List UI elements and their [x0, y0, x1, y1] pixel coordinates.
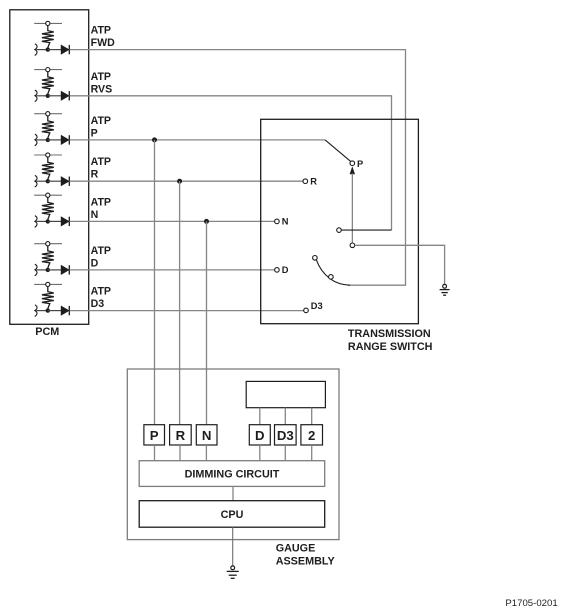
wire: lamp P to dimming circuit [154, 445, 156, 461]
wire: driver box to D lamp [259, 408, 261, 425]
svg-text:P1705-0201: P1705-0201 [505, 598, 557, 609]
DIMMING CIRCUIT box [139, 461, 325, 487]
wire: internal supply rail (ATP N) [34, 194, 62, 196]
resistor R5 (pull-up, ATP N) [42, 197, 54, 219]
svg-text:ASSEMBLY: ASSEMBLY [276, 556, 336, 568]
PCM box [10, 10, 89, 325]
indicator lamp box N [196, 425, 217, 445]
wire: node N down to gauge N lamp [206, 221, 208, 424]
contact circle P [350, 161, 355, 166]
wire: junction to diode (ATP D3) [48, 310, 62, 312]
svg-text:D3: D3 [91, 298, 105, 310]
wire: ATP N row [70, 220, 275, 222]
indicator lamp box 2 [301, 425, 323, 445]
ground symbol (gauge assembly) [227, 566, 239, 578]
ground symbol (switch) [440, 284, 450, 295]
svg-text:D: D [282, 265, 289, 275]
off-page connector squiggle (ATP R) [35, 175, 37, 187]
wire: node R down to gauge R lamp [179, 181, 181, 425]
svg-text:D3: D3 [277, 428, 294, 443]
wire: driver box to 2 lamp [311, 408, 313, 425]
resistor R7 (pull-up, ATP D3) [42, 286, 54, 308]
svg-text:FWD: FWD [91, 37, 115, 49]
wire: lamp N to dimming circuit [205, 445, 207, 461]
diode CR1 (ATP FWD) [61, 45, 69, 54]
off-page connector squiggle (ATP RVS) [35, 90, 37, 102]
wire: ATP D row [70, 269, 275, 271]
PCM driver cell for ATP D [34, 242, 111, 276]
svg-text:ATP: ATP [91, 196, 111, 208]
junction dot (resistor/diode node, ATP D) [46, 268, 50, 272]
diode CR2 (ATP RVS) [61, 91, 69, 100]
wire: CPU to ground [232, 527, 234, 566]
terminal circle (supply tap, ATP N) [46, 193, 50, 197]
diode CR6 (ATP D) [61, 266, 69, 275]
junction dot node P [152, 137, 157, 142]
contact circle D [275, 268, 280, 273]
terminal circle (supply tap, ATP RVS) [46, 68, 50, 72]
svg-text:N: N [91, 209, 99, 221]
arc wiper contact (D/D3 strip) [316, 260, 350, 286]
PCM driver cell for ATP D3 [34, 282, 111, 316]
wire: squiggle to junction (ATP D) [36, 269, 48, 271]
wire: P feed diagonal into switch [325, 140, 351, 162]
svg-text:N: N [202, 428, 212, 443]
wire: internal supply rail (ATP R) [34, 154, 62, 156]
wiper arm arrow (range selector) [350, 166, 355, 174]
wire: ATP P row [70, 139, 326, 141]
terminal circle (supply tap, ATP FWD) [46, 21, 50, 25]
indicator driver box (unlabeled) [246, 381, 325, 407]
PCM driver cell for ATP N [34, 193, 111, 227]
svg-text:P: P [150, 428, 159, 443]
wire: internal supply rail (ATP P) [34, 113, 62, 115]
diode CR7 (ATP D3) [61, 306, 69, 315]
wire: lamp 2 to dimming circuit [311, 445, 313, 461]
wire: junction to diode (ATP RVS) [48, 95, 62, 97]
svg-text:P: P [357, 159, 363, 169]
CPU box [139, 501, 325, 528]
svg-text:R: R [91, 169, 99, 181]
wire: junction to diode (ATP D) [48, 269, 62, 271]
svg-text:ATP: ATP [91, 156, 111, 168]
wire: dimming circuit to CPU [232, 486, 234, 500]
terminal circle (supply tap, ATP P) [46, 112, 50, 116]
wire: ATP FWD row [70, 50, 406, 286]
terminal circle (supply tap, ATP D3) [46, 282, 50, 286]
wire: driver box to D3 lamp [284, 408, 286, 425]
indicator lamp box D3 [275, 425, 297, 445]
wire: lamp D3 to dimming circuit [284, 445, 286, 461]
wire: squiggle to junction (ATP D3) [36, 310, 48, 312]
svg-text:2: 2 [308, 428, 315, 443]
indicator lamp box P [144, 425, 165, 445]
contact circle R [303, 179, 308, 184]
wire: internal supply rail (ATP FWD) [34, 22, 62, 24]
resistor R4 (pull-up, ATP R) [42, 157, 54, 179]
wire: internal supply rail (ATP D) [34, 243, 62, 245]
contact circle arc wiper lower [329, 275, 334, 280]
svg-text:D3: D3 [311, 301, 323, 311]
wire: wiper pivot to ground [355, 245, 445, 284]
svg-text:ATP: ATP [91, 71, 111, 83]
wire: lamp R to dimming circuit [179, 445, 181, 461]
junction dot (resistor/diode node, ATP N) [46, 219, 50, 223]
wire: ATP RVS row [70, 96, 392, 230]
svg-text:ATP: ATP [91, 245, 111, 257]
svg-text:RVS: RVS [91, 83, 113, 95]
junction dot (resistor/diode node, ATP P) [46, 138, 50, 142]
wire: ATP R row [70, 180, 303, 182]
off-page connector squiggle (ATP D) [35, 264, 37, 276]
wire: node P down to gauge P lamp [154, 140, 156, 425]
svg-text:R: R [310, 177, 317, 187]
wire: internal supply rail (ATP RVS) [34, 69, 62, 71]
wire: junction to diode (ATP FWD) [48, 49, 62, 51]
svg-text:ATP: ATP [91, 286, 111, 298]
junction dot (resistor/diode node, ATP RVS) [46, 94, 50, 98]
svg-text:ATP: ATP [91, 115, 111, 127]
resistor R1 (pull-up, ATP FWD) [42, 25, 54, 47]
junction dot (resistor/diode node, ATP R) [46, 179, 50, 183]
wire: lamp D to dimming circuit [259, 445, 261, 461]
contact circle D3 [304, 308, 309, 313]
wire: squiggle to junction (ATP R) [36, 180, 48, 182]
svg-text:CPU: CPU [221, 509, 244, 521]
PCM driver cell for ATP R [34, 153, 111, 187]
wire: squiggle to junction (ATP FWD) [36, 49, 48, 51]
svg-text:N: N [282, 217, 289, 227]
diode CR4 (ATP R) [61, 177, 69, 186]
svg-text:ATP: ATP [91, 25, 111, 37]
terminal circle (supply tap, ATP D) [46, 242, 50, 246]
wiper pivot circle [350, 243, 355, 248]
svg-text:P: P [91, 127, 98, 139]
wire: squiggle to junction (ATP RVS) [36, 95, 48, 97]
off-page connector squiggle (ATP D3) [35, 305, 37, 317]
off-page connector squiggle (ATP N) [35, 216, 37, 228]
wire: junction to diode (ATP R) [48, 180, 62, 182]
contact circle RVS feed [337, 228, 342, 233]
svg-text:D: D [91, 257, 99, 269]
PCM driver cell for ATP RVS [34, 68, 112, 102]
diode CR5 (ATP N) [61, 217, 69, 226]
PCM driver cell for ATP FWD [34, 21, 115, 55]
junction dot (resistor/diode node, ATP D3) [46, 308, 50, 312]
junction dot node R [177, 179, 182, 184]
svg-text:D: D [255, 428, 265, 443]
svg-text:GAUGE: GAUGE [276, 543, 316, 555]
wire: junction to diode (ATP P) [48, 139, 62, 141]
indicator lamp box D [249, 425, 270, 445]
off-page connector squiggle (ATP FWD) [35, 44, 37, 56]
wire: internal supply rail (ATP D3) [34, 283, 62, 285]
indicator lamp box R [170, 425, 192, 445]
svg-text:PCM: PCM [35, 326, 59, 338]
junction dot (resistor/diode node, ATP FWD) [46, 47, 50, 51]
resistor R2 (pull-up, ATP RVS) [42, 72, 54, 94]
wire: squiggle to junction (ATP N) [36, 220, 48, 222]
wire: junction to diode (ATP N) [48, 220, 62, 222]
contact circle N [275, 219, 280, 224]
TRANSMISSION RANGE SWITCH box [261, 119, 419, 323]
wire: ATP D3 row [70, 310, 304, 312]
wire: squiggle to junction (ATP P) [36, 139, 48, 141]
diode CR3 (ATP P) [61, 136, 69, 145]
wire: RVS contact to RVS drop [341, 229, 391, 231]
contact circle arc wiper upper (D position) [313, 255, 318, 260]
svg-text:R: R [176, 428, 186, 443]
resistor R3 (pull-up, ATP P) [42, 116, 54, 138]
resistor R6 (pull-up, ATP D) [42, 246, 54, 268]
off-page connector squiggle (ATP P) [35, 134, 37, 146]
PCM driver cell for ATP P [34, 112, 111, 146]
GAUGE ASSEMBLY box [127, 369, 339, 540]
terminal circle (supply tap, ATP R) [46, 153, 50, 157]
svg-text:RANGE SWITCH: RANGE SWITCH [348, 341, 433, 353]
junction dot node N [204, 219, 209, 224]
svg-text:TRANSMISSION: TRANSMISSION [348, 328, 431, 340]
svg-text:DIMMING CIRCUIT: DIMMING CIRCUIT [185, 468, 280, 480]
